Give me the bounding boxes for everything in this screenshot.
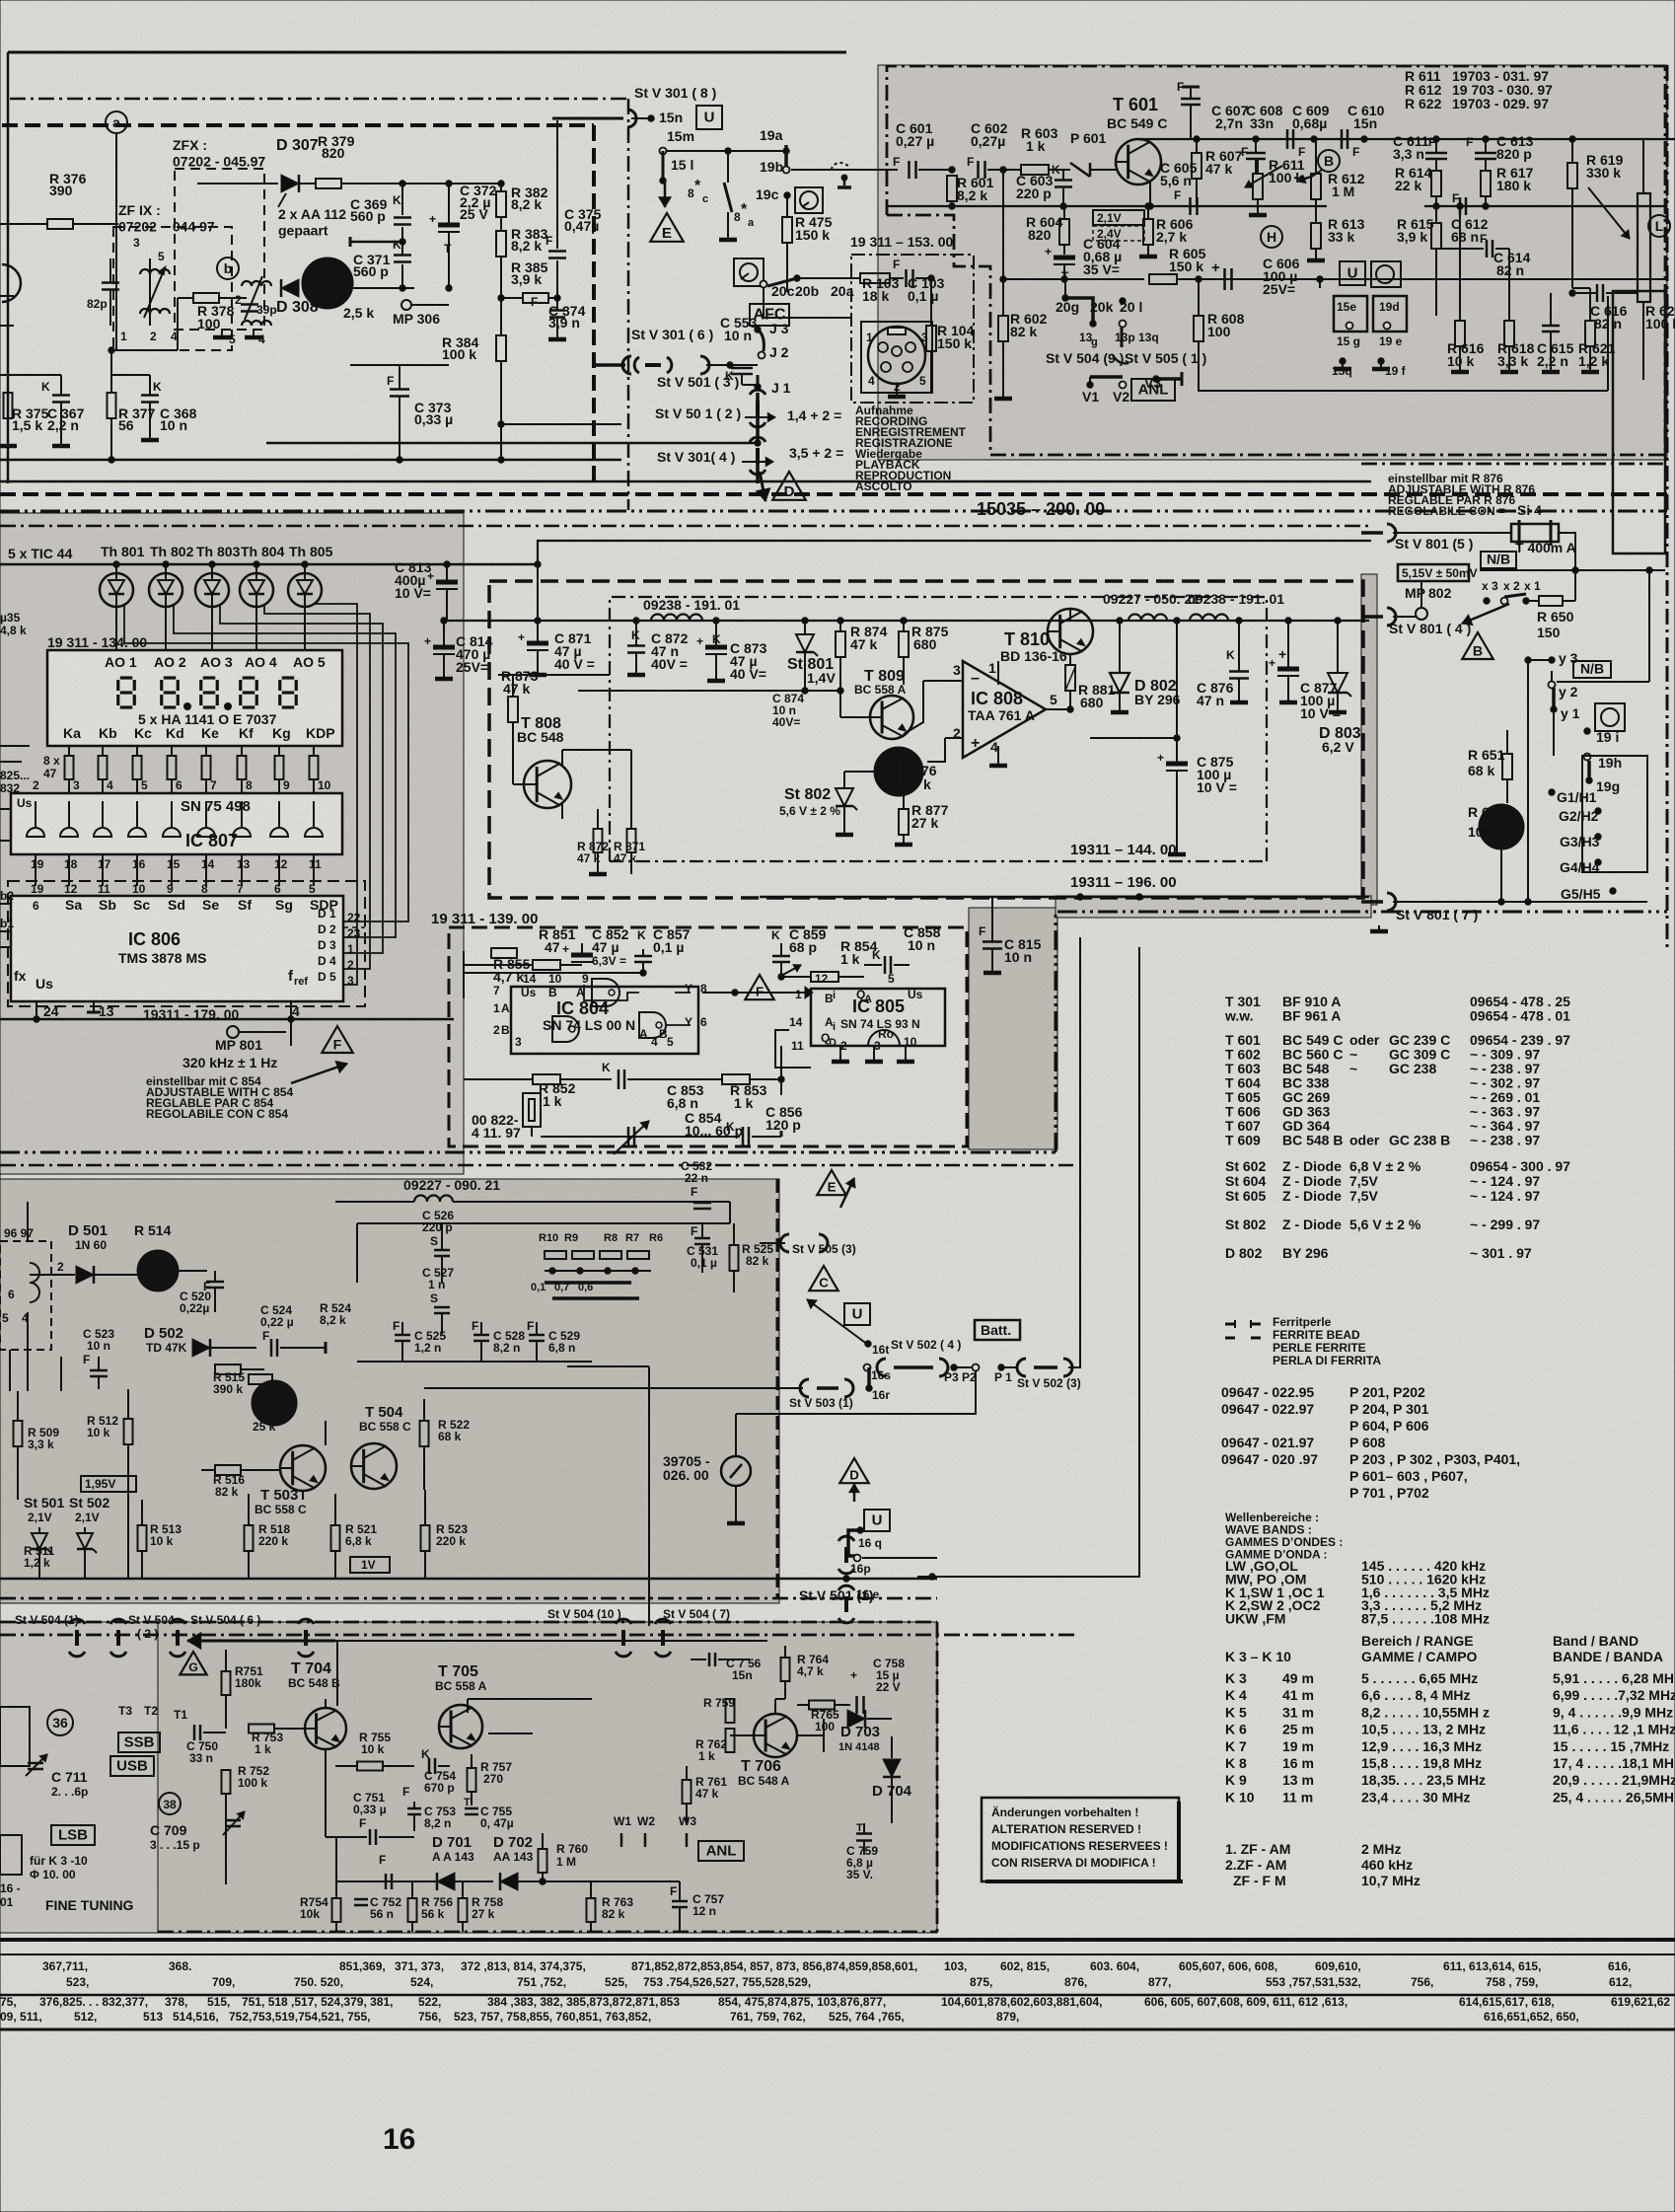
StV801(7) connector [1387, 893, 1396, 911]
StV801(5) connector [1387, 524, 1396, 542]
StV801(4) connector [1387, 608, 1396, 626]
thyristor top bus [0, 563, 454, 566]
B warning triangle [1462, 632, 1493, 659]
19h 19g contacts [1584, 754, 1591, 761]
top-left heavy dashed frame [2, 123, 594, 127]
1V box [350, 1557, 390, 1573]
dash-dot border y470 [1361, 463, 1665, 466]
J box top border dash-dot-dot [0, 1151, 1056, 1154]
diode D802 [1110, 673, 1129, 693]
arrow down to D [760, 472, 765, 501]
thyristor to display wires [115, 613, 117, 650]
bus y209 right [1424, 205, 1667, 207]
wire bus3 y283 [1003, 278, 1144, 280]
cap F to top [1181, 98, 1201, 101]
capacitor 82p [102, 281, 119, 284]
ZFIX dashed box [113, 227, 232, 350]
IC804 internal wires [584, 985, 639, 1000]
bottom bus wire [0, 1018, 454, 1021]
E warning triangle mid [817, 1170, 845, 1195]
tall box top right [1613, 291, 1665, 553]
capacitor grid top [729, 1202, 731, 1223]
top wire in box [464, 972, 643, 974]
T503 transistor [280, 1445, 326, 1491]
ferrite bead symbol [1225, 1323, 1235, 1326]
wire bottom bus [0, 459, 621, 462]
V1 V2 V3 [1087, 382, 1093, 388]
wire y1958 bottom inside [158, 1931, 937, 1933]
driver gates [27, 828, 44, 837]
page top border line [8, 51, 846, 54]
top wire to C532 [533, 1201, 730, 1203]
left page border [7, 52, 10, 483]
loupe box 1 [795, 187, 823, 213]
dash-dot border y533 [0, 525, 1369, 528]
L circle [1648, 215, 1670, 237]
bus y909 [760, 896, 1369, 899]
U box [696, 106, 722, 129]
NAND gate 2 [552, 1016, 579, 1042]
wire T808 base bus [578, 690, 805, 692]
switch block 15e 19d [1334, 296, 1367, 332]
capacitor 39p [241, 303, 258, 306]
vertical wire x1095 [1068, 937, 1080, 1367]
E warning triangle [650, 213, 684, 242]
resistor R881 [1065, 665, 1075, 691]
ZFX ground stubs [221, 332, 223, 337]
collector bus y141 [1138, 138, 1675, 140]
top-right dash-dot frame [887, 66, 1665, 215]
wire fuse down [1559, 533, 1575, 570]
IC804 box [511, 987, 698, 1054]
inductor L3 [1190, 615, 1228, 622]
left edge wire stubs A [0, 295, 14, 297]
dashed box 19311-139.00 [449, 927, 967, 1146]
vertical wire x1155 to StV501(1) [917, 947, 1139, 1577]
wire to StV504(7) [648, 1366, 650, 1626]
bus y578 [1480, 569, 1665, 571]
IF transformer 2 (b) [217, 258, 239, 279]
LSB box [51, 1825, 95, 1845]
y2 y1 switch [1549, 682, 1556, 689]
loupe box 2 [734, 258, 764, 286]
St wire mid [631, 778, 844, 780]
B circle [1318, 150, 1340, 172]
IC807 box [11, 793, 342, 854]
16q 16p wire [848, 1530, 860, 1556]
emitter join wire [302, 1492, 304, 1500]
IC808 output wire [1046, 708, 1070, 710]
IC805 box [811, 989, 945, 1046]
wire down J1 [756, 393, 760, 442]
wires below IC805 [839, 1046, 841, 1062]
IC808 op-amp [963, 661, 1046, 758]
IC805 input wire [702, 992, 811, 994]
border line y488 [0, 480, 1371, 483]
blob over D308 area [302, 258, 353, 309]
USB box [110, 1756, 154, 1776]
MP801 test point [227, 1026, 239, 1038]
R873 wire [498, 674, 610, 676]
left edge wires to IC807 [0, 761, 22, 763]
P2 down wire [736, 1371, 976, 1414]
U box 2 [864, 1510, 890, 1531]
inductor L2 [1129, 615, 1167, 622]
bus y209 [887, 205, 1327, 207]
StV505(3) connector [780, 1234, 789, 1252]
ZFX dashed box [175, 169, 264, 330]
wire lower link [501, 423, 621, 425]
junction dots on bus [1077, 894, 1083, 900]
input wire [887, 169, 898, 171]
wires C-grid [357, 1222, 730, 1224]
G warning triangle [180, 1652, 206, 1674]
fref wire down [290, 1001, 292, 1046]
wire to C875 junction [1090, 737, 1177, 739]
switch contact 8*a [727, 151, 729, 183]
long wire y449 [266, 442, 758, 445]
resistor R376 [47, 219, 73, 229]
AFC box [750, 304, 789, 326]
F warning triangle mid [745, 975, 773, 999]
dash-dot-dot border right of 139 box [1056, 912, 1667, 1152]
inductor L1 [651, 615, 702, 622]
5,15V box [1398, 564, 1469, 581]
inductor [414, 1196, 453, 1202]
wire R871 to St802 node [630, 750, 632, 779]
resistor R650 [1539, 596, 1563, 606]
StV502 batt connectors [809, 1266, 837, 1290]
IF transformer 1 [149, 258, 151, 326]
NAND gate 1 [592, 979, 619, 1006]
y3 node [1525, 657, 1531, 663]
quartz crystal [523, 1093, 541, 1127]
trimmer C854 [541, 1136, 691, 1138]
D warning triangle [772, 472, 806, 500]
bus extension to feed line [454, 563, 538, 566]
wire R608 bottom [1198, 390, 1608, 392]
wire ZFX top [197, 183, 278, 184]
capacitor C604 electrolytic [1054, 256, 1075, 260]
G/H ladder box [1582, 756, 1647, 872]
T808 emitter/collector wires [561, 804, 563, 819]
junction to C606 wire [1317, 276, 1323, 282]
IC806 box [11, 896, 343, 1001]
DIN connector plug [861, 322, 932, 393]
potentiometer R622 [1638, 193, 1650, 302]
1,95V box [81, 1476, 136, 1492]
dash-dot box 19311-153.00 [851, 255, 974, 403]
J box bottom dash-dot [0, 1597, 937, 1600]
D triangle bottom [839, 1458, 868, 1483]
loupe box right [1595, 703, 1625, 731]
blob R876 [874, 747, 923, 796]
blob R652 [1479, 804, 1524, 849]
power supply outer dashed box [489, 581, 1363, 898]
dashed box 19311-179 [8, 881, 365, 1006]
ferrite bead on wire [832, 163, 849, 170]
zener St802 [836, 788, 853, 806]
wire R605 to C606 [1218, 278, 1667, 280]
node a circle [106, 111, 127, 133]
power supply inner dash-dot box [610, 597, 1267, 861]
N/B box [1481, 552, 1516, 568]
bottom bus J [0, 1578, 937, 1581]
shaded scan background regions [878, 65, 1667, 460]
zener D803 [1328, 673, 1347, 693]
connector arcs bottom [69, 1619, 85, 1624]
wire base bus [610, 691, 840, 717]
left edge transformer circle [2, 264, 21, 302]
left edge partial boxes [0, 1707, 30, 1766]
voltage boxes 2,1V 2,4V [1093, 210, 1144, 225]
wire y2 to right border [1552, 680, 1657, 682]
top rail [444, 620, 1369, 622]
L box borders [0, 1621, 937, 1624]
Batt box [975, 1320, 1020, 1340]
7-segment digits 88.8.88 [120, 676, 133, 679]
heavy dashed border y501 [0, 492, 1667, 496]
MP 306 test point [401, 300, 411, 310]
dash-dot-dot border y518 [0, 510, 1667, 513]
right vertical dash-dot border [1666, 65, 1669, 949]
wire from transformer to bottom [111, 349, 178, 351]
fuse Si4 [1511, 524, 1559, 542]
alterations reserved box [982, 1798, 1179, 1881]
36 circle [47, 1710, 73, 1735]
38 circle [159, 1793, 181, 1814]
NAND gate 3 [639, 1012, 666, 1038]
bottom table rules [0, 1938, 1675, 1942]
wiper arrow [1462, 604, 1509, 624]
ANL box [1131, 379, 1175, 401]
StV503(1) [800, 1379, 809, 1397]
wire y1907 [552, 1880, 680, 1882]
F warning triangle [322, 1026, 353, 1053]
P1 StV502(3) [998, 1364, 1004, 1370]
N/B box 2 [1573, 661, 1611, 678]
J box top border dash-dot [0, 1164, 1073, 1167]
wire inside box left [464, 997, 491, 999]
19i node [1584, 728, 1590, 734]
long wires in L box [226, 1640, 767, 1642]
left edge IF-transformer box J [0, 1241, 51, 1350]
ANL box 2 [698, 1841, 744, 1861]
16r wire [866, 1385, 872, 1391]
nested data wires D1-D5 [313, 604, 357, 985]
zener St801 [796, 634, 814, 652]
diode D308 [281, 279, 299, 297]
SSB box [118, 1733, 160, 1752]
T601 emitter wire [1149, 182, 1151, 206]
wire mid [350, 241, 402, 244]
display box [47, 650, 342, 746]
big left arrow [187, 1640, 335, 1643]
H circle [1261, 226, 1282, 248]
left edge vertical wires J [9, 1350, 11, 1391]
arrow to R622 [1588, 187, 1630, 239]
left edge stub wires [0, 903, 11, 905]
U box and loupe box [1340, 261, 1365, 285]
resistor R517 blob [252, 1380, 297, 1426]
top-left dash-dot frame [10, 98, 628, 101]
J box right border [776, 1179, 779, 1598]
